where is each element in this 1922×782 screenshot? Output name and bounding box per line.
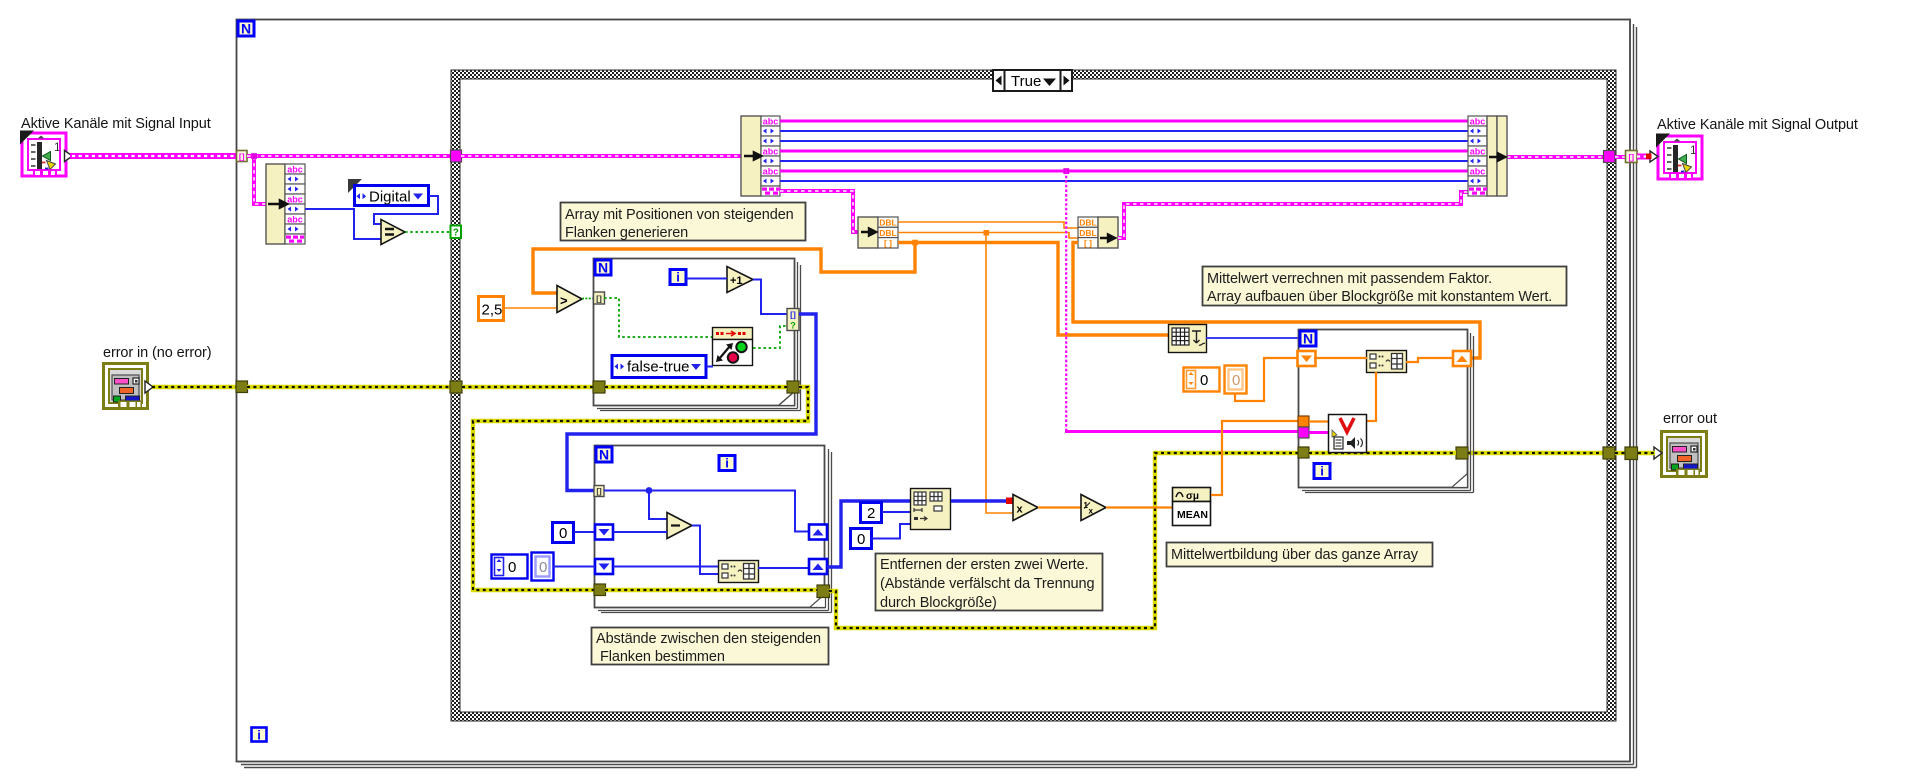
svg-text:0: 0 (559, 525, 567, 542)
node: reciprocal 1/x (1081, 495, 1106, 521)
svg-text:N: N (599, 447, 609, 463)
loop2 shift register left bottom (595, 559, 613, 574)
wire: pink wavy row4 across case (780, 150, 1468, 153)
wire: orange shift register to build array (1314, 357, 1367, 359)
svg-text:abc: abc (1470, 147, 1486, 157)
loop3 i terminal (1314, 464, 1330, 479)
comment: Entfernen der ersten zwei Werte box (876, 554, 1103, 612)
wire: thin orange DBL1 to bundle (898, 222, 1078, 228)
wire: error wire loop2 to loop3 (829, 453, 1299, 628)
wire: blue row5 across case (780, 160, 1468, 162)
wire: orange build array down to DAQ write node (1366, 372, 1376, 421)
tunnel: case border error tunnel left (450, 381, 462, 393)
wire: blue row3 across case (780, 140, 1468, 142)
wire: pink dashed from bundle to case border right (1507, 155, 1604, 159)
node: increment +1 (727, 267, 753, 293)
comment: Mittelwert verrechnen box (1203, 267, 1567, 306)
loop1 N terminal (595, 260, 611, 276)
wire: blue enum to detector (706, 366, 713, 368)
svg-text:Flanken bestimmen: Flanken bestimmen (600, 649, 725, 665)
svg-text:[]: [] (239, 152, 245, 162)
wire: thick blue array from loop1 tunnel to loop2 (567, 314, 816, 491)
svg-text:abc: abc (763, 167, 779, 177)
node: multiply (1013, 495, 1038, 521)
svg-text:DBL: DBL (879, 228, 896, 238)
svg-text:σμ: σμ (1186, 491, 1199, 502)
control icon: error in (104, 364, 154, 409)
loop3 N terminal (1300, 331, 1316, 347)
node: DAQmx Write (V) (1329, 415, 1367, 453)
node: Equal? (381, 220, 405, 245)
svg-text:i: i (676, 270, 680, 285)
wire: error wire to case border (247, 385, 452, 389)
svg-text:N: N (241, 21, 251, 37)
svg-text:Mittelwertbildung über das gan: Mittelwertbildung über das ganze Array (1171, 547, 1419, 563)
wire: blue array size to loop3 count (1206, 337, 1299, 339)
node: build array (loop2) (719, 561, 759, 583)
svg-text:(Abstände verfälscht da Trennu: (Abstände verfälscht da Trennung (880, 576, 1094, 592)
wire: pink dashed inside case to big unbundle (461, 154, 742, 158)
node: numeric control with spin (blue) (492, 555, 528, 579)
svg-text:Digital: Digital (369, 189, 411, 206)
svg-text:abc: abc (763, 117, 779, 127)
svg-text:[ ]: [ ] (1084, 238, 1092, 248)
svg-text:Abstände zwischen den steigend: Abstände zwischen den steigenden (596, 631, 821, 647)
svg-text:0: 0 (857, 531, 865, 548)
wire: blue i to +1 (686, 278, 727, 280)
wire: error wire loop3 to case border right (1468, 451, 1604, 455)
node: Unbundle By Name (top middle, 8 rows) (741, 116, 780, 196)
wire: orange MEAN up to loop3 (1211, 421, 1299, 495)
svg-text:abc: abc (287, 165, 303, 175)
loop2 N terminal (596, 447, 612, 463)
outer for loop N terminal (238, 21, 254, 37)
wire: orange build array to right shift register (1406, 358, 1453, 362)
wire: orange multiply to reciprocal (1038, 506, 1081, 508)
svg-text:Aktive Kanäle mit Signal Input: Aktive Kanäle mit Signal Input (21, 116, 211, 132)
node: enum constant "Digital" (348, 179, 429, 206)
loop1 conditional indexing tunnel (787, 309, 799, 331)
case selector label "True" (993, 70, 1072, 91)
wire: blue row7 across case (780, 180, 1468, 182)
wire: blue subtract to build array (692, 526, 719, 575)
wire: green dotted detector to conditional tunnel (753, 326, 787, 348)
node: numeric constant 0 (851, 529, 872, 549)
svg-text:[]: [] (596, 487, 602, 496)
comment: Array mit Positionen von steigenden Flanken generieren (561, 203, 806, 242)
node: Bundle (DBL DBL []) (1078, 217, 1118, 248)
svg-text:2,5: 2,5 (482, 302, 503, 319)
wire: orange tunnel to DAQ write (1309, 420, 1329, 422)
node: delete from array (911, 489, 951, 530)
node: numeric control with spin (orange) (1184, 368, 1220, 392)
svg-text:error in (no error): error in (no error) (103, 345, 212, 361)
svg-text:i: i (1320, 464, 1324, 479)
svg-text:i: i (257, 728, 261, 743)
svg-text:[]: [] (596, 294, 602, 304)
outer for loop i terminal (252, 728, 267, 743)
wire: blue shift register bottom to build array (613, 566, 719, 568)
svg-text:i: i (725, 456, 729, 471)
node: Greater? (557, 286, 582, 313)
wire: blue shift register top to subtract lower input (613, 531, 667, 533)
svg-text:1: 1 (1690, 143, 1697, 157)
svg-text:Entfernen der ersten zwei Wert: Entfernen der ersten zwei Werte. (880, 557, 1089, 573)
tunnel: case selector terminal ? (451, 226, 462, 239)
loop3 shift register left (orange) (1298, 351, 1316, 366)
svg-text:DBL: DBL (1079, 218, 1096, 228)
node: build array (loop3) (1367, 351, 1407, 373)
wire: blue control to shift register bottom (553, 566, 595, 568)
tunnel: outer loop left auto-index tunnel [] (237, 151, 248, 162)
svg-text:+1: +1 (730, 275, 743, 287)
wire: blue build array to shift register right bottom (758, 567, 809, 569)
loop3 error tunnel left (1298, 447, 1309, 458)
wire: error wire through loop3 (1309, 451, 1456, 455)
comment: Mittelwertbildung über das ganze Array (1167, 543, 1433, 567)
wire: thick blue from loop2 to array subset (827, 501, 911, 567)
loop3 error tunnel right (1456, 447, 1468, 459)
node: enum constant false-true (612, 356, 706, 378)
indicator icon: Aktive Kanäle mit Signal Output (1650, 134, 1702, 180)
svg-text:?: ? (453, 228, 459, 239)
comment: Abstände zwischen den steigenden Flanken bestimmen (592, 628, 829, 666)
svg-text:x: x (1017, 504, 1024, 516)
wire: error wire to error out indicator (1638, 451, 1655, 455)
svg-text:x: x (1089, 507, 1094, 516)
node: Bundle By Name (right, 8 rows) (1468, 116, 1507, 196)
node: array size icon (1169, 325, 1207, 353)
svg-text:durch Blockgröße): durch Blockgröße) (880, 595, 997, 611)
loop2 shift register right top (809, 525, 827, 540)
for loop 3 frame (1299, 330, 1474, 493)
svg-text:Mittelwert verrechnen mit pass: Mittelwert verrechnen mit passendem Fakt… (1207, 271, 1492, 287)
node: numeric constant 2,5 (479, 297, 504, 321)
wire: blue from Digital to equals (374, 196, 438, 224)
svg-text:1: 1 (54, 140, 61, 154)
loop2 shift register right bottom (809, 559, 827, 574)
wire: pink dashed branch down to unbundle (251, 153, 266, 204)
loop3 magenta tunnel (1298, 427, 1309, 438)
wire: blue inside loop2 with junction (604, 487, 809, 531)
wire: error wire case border to loop1 (462, 385, 594, 389)
control icon: Aktive Kanäle mit Signal Input (20, 131, 73, 177)
svg-text:True: True (1011, 73, 1041, 90)
wire: green dotted inside loop1 to edge detector (604, 298, 713, 337)
tunnel: outer loop error tunnel (236, 381, 248, 393)
loop1 left tunnel [] (594, 292, 605, 304)
wire: blue 2 to array subset (882, 511, 911, 513)
wire: error wire from error in to outer loop (152, 385, 237, 389)
tunnel: case border error tunnel right (1603, 447, 1615, 459)
svg-text:abc: abc (763, 147, 779, 157)
svg-text:>: > (560, 293, 568, 308)
node: numeric constant 0 (loop2 shift init) (553, 523, 574, 543)
wire: thick orange from loop3 shift register up to DBL bundle [] (1073, 243, 1480, 359)
svg-text:?: ? (790, 321, 796, 331)
loop1 i terminal (670, 270, 686, 285)
svg-text:false-true: false-true (627, 359, 690, 376)
wire: green dotted from equals to case selector (405, 231, 451, 233)
svg-text:0: 0 (508, 559, 516, 576)
svg-text:abc: abc (1470, 117, 1486, 127)
svg-text:DBL: DBL (1079, 228, 1096, 238)
wire: thick orange array from [] row with branches (533, 240, 1169, 335)
tunnel: case left border magenta tunnel (451, 150, 462, 162)
wire: pink wavy row1 across case (780, 120, 1468, 123)
svg-text:[]: [] (790, 310, 796, 320)
wire: pink dashed from DBL bundle to big bundle row8 (1118, 192, 1468, 238)
svg-text:Aktive Kanäle mit Signal Outpu: Aktive Kanäle mit Signal Output (1657, 117, 1858, 133)
svg-text:2: 2 (867, 505, 875, 522)
svg-text:abc: abc (287, 195, 303, 205)
svg-text:[]: [] (1628, 152, 1634, 162)
tunnel: outer loop error tunnel right (1625, 447, 1638, 460)
svg-text:MEAN: MEAN (1177, 509, 1208, 521)
svg-text:DBL: DBL (879, 218, 896, 228)
wire: green wavy greater to loop1 tunnel (582, 298, 594, 300)
svg-text:N: N (598, 260, 608, 276)
wire: thick blue array subset to multiply with coercion dot (951, 498, 1013, 505)
wire: blue row2 across case (780, 130, 1468, 132)
wire: pink tunnel to DAQ write (1309, 431, 1329, 434)
loop2 shift register left top (595, 525, 613, 540)
loop2 left tunnel [] (594, 486, 604, 497)
wire: error wire loop1 to loop2 (down-left) (473, 387, 808, 590)
outer for loop frame (237, 20, 1637, 768)
wire: blue 0 to shift register (574, 531, 595, 533)
svg-text:[ ]: [ ] (884, 238, 892, 248)
node: index display (blue) (532, 553, 554, 581)
for loop 2 frame (595, 446, 832, 613)
wire: blue 0 to array subset (871, 524, 911, 539)
loop2 error tunnels (594, 584, 606, 596)
node: Unbundle By Name (left, 8 rows) (266, 164, 305, 244)
wire: pink dashed between case and outer border (1615, 155, 1626, 159)
svg-text:Array mit Positionen von steig: Array mit Positionen von steigenden (565, 207, 794, 223)
wire: pink vertical from row6 junction down to loop3 (1065, 171, 1067, 431)
svg-text:N: N (1303, 331, 1313, 347)
node: index display (orange) (1225, 366, 1247, 394)
svg-text:Flanken generieren: Flanken generieren (565, 225, 688, 241)
wire: error wire case to outer border (1615, 451, 1626, 455)
loop3 orange tunnel (1298, 416, 1309, 427)
loop3 shift register right (orange) (1453, 351, 1471, 366)
wire: orange 2,5 to greater (504, 307, 557, 309)
tunnel: outer loop right tunnel [] (1626, 151, 1638, 163)
for loop 1 frame (594, 259, 801, 411)
wire: blue from unbundle row5 to equals (305, 209, 381, 239)
wire: pink striped to output indicator (1637, 154, 1652, 160)
svg-text:error out: error out (1663, 411, 1717, 427)
tunnel: case border magenta tunnel right (1604, 151, 1616, 163)
wire: error wire through loop2 (605, 588, 817, 592)
node: MEAN (1173, 488, 1211, 526)
node: numeric constant 2 (861, 503, 882, 523)
loop1 error tunnels (593, 381, 605, 393)
svg-text:0: 0 (1232, 372, 1240, 389)
wire: error wire through loop1 (605, 385, 787, 389)
svg-text:abc: abc (287, 215, 303, 225)
wire: pink wavy row6 across case with junction (780, 168, 1468, 174)
svg-text:0: 0 (539, 559, 547, 576)
node: boolean crossing detector (713, 328, 753, 366)
wire: pink striped array wire from input control to outer loop tunnel (70, 153, 237, 159)
wire: pink dashed row8 down to DBL unbundle (780, 191, 859, 232)
case structure border (hatched) (451, 70, 1616, 721)
wire: thin orange DBL2 to bundle with junction to multiply (898, 230, 1078, 513)
indicator icon: error out (1654, 432, 1707, 477)
wire: orange control to loop3 shift register (1235, 358, 1297, 401)
loop2 i terminal (719, 456, 735, 471)
svg-text:Array aufbauen über Blockgröße: Array aufbauen über Blockgröße mit konst… (1207, 289, 1552, 305)
node: subtract (667, 513, 692, 539)
svg-text:abc: abc (1470, 167, 1486, 177)
wire: pink dashed cluster wire tunnel to case border (247, 154, 451, 158)
wire: orange reciprocal to MEAN (1106, 506, 1172, 508)
node: Unbundle (DBL DBL []) (858, 217, 898, 248)
svg-text:0: 0 (1200, 372, 1208, 389)
wire: blue +1 to conditional tunnel (753, 280, 787, 315)
